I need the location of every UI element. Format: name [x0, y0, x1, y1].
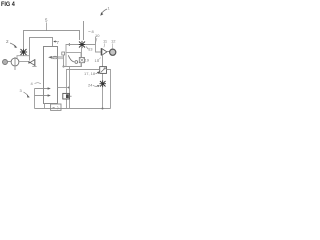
wire lower dip tube — [35, 95, 49, 97]
check valve 11 (bar + triangle) — [100, 48, 102, 55]
wire left riser with dip tubes — [34, 89, 36, 109]
wire top supply pipe — [24, 31, 80, 49]
wire tank drain — [44, 104, 46, 109]
wire pipe below box to HX bottom — [63, 63, 82, 67]
component 8 small box on riser — [62, 52, 65, 55]
node 5 leader tick — [46, 23, 48, 32]
wire stub to meter circle — [107, 51, 110, 53]
label 7 arrow at tank top pipe — [54, 41, 57, 43]
svg-text:10: 10 — [95, 33, 100, 38]
node junction dot bottom — [102, 108, 104, 110]
wire vent stub above valve 13 — [83, 21, 85, 40]
wire tank outlet stub — [58, 87, 70, 89]
wire cold inlet line to valve box 11 — [86, 45, 101, 53]
wire loop pipe from valve box left — [67, 70, 100, 109]
heat exchanger HX box — [66, 53, 81, 67]
wire HX coil curl — [68, 55, 74, 62]
valve V24 (snowflake) — [100, 80, 107, 87]
node junction dot tank stub — [68, 87, 70, 89]
wire second pipe to tank top — [30, 38, 53, 61]
wire right branch from valve box — [107, 70, 111, 109]
svg-text:24: 24 — [88, 83, 93, 88]
wire west pipe of valve 13 down to HX — [66, 45, 78, 53]
wire motor stub — [8, 61, 12, 63]
wire bottom return pipe — [35, 108, 111, 110]
wire line through pump — [14, 57, 16, 70]
wire right dip tube into tank — [51, 56, 64, 58]
valve V13 (mixing valve snowflake) — [78, 41, 85, 48]
component 19 small box — [79, 58, 84, 63]
pump P2 box on loop — [63, 93, 70, 99]
wire valve 13 drop pipe — [81, 48, 83, 57]
check valve / tundish — [28, 59, 36, 66]
svg-text:17, 18: 17, 18 — [84, 71, 96, 76]
valve V2 (mixing valve snowflake) — [20, 48, 27, 55]
wire pump outlet pipe — [19, 61, 30, 63]
valve box 17,18 — [100, 67, 107, 74]
node coil end circle — [75, 61, 78, 64]
svg-text:12: 12 — [111, 39, 116, 44]
wire leader 3 — [24, 92, 29, 96]
wire upper dip tube — [35, 88, 49, 90]
wire valve V2 lower bracket — [17, 56, 30, 61]
wire vertical main right column — [102, 54, 104, 108]
svg-text:~: ~ — [52, 106, 55, 111]
tank T (storage cylinder) — [44, 47, 58, 104]
meter 12 circle — [110, 49, 116, 55]
svg-text:15: 15 — [95, 58, 100, 63]
wire riser beside tank — [63, 55, 65, 67]
svg-text:2: 2 — [6, 39, 9, 44]
wire HX outlet drop pipe — [69, 67, 71, 109]
svg-text:FIG 4: FIG 4 — [1, 1, 15, 8]
node junction dot HX outlet — [63, 66, 65, 68]
node tick on west pipe — [68, 43, 70, 46]
motor M small grey circle — [3, 60, 8, 65]
pump P1 circle — [11, 58, 19, 66]
svg-text:19: 19 — [85, 58, 90, 63]
heater element box with ~ — [51, 104, 61, 110]
svg-text:): ) — [57, 106, 58, 110]
svg-text:13: 13 — [88, 47, 93, 52]
wire leader 2 — [10, 43, 16, 46]
label 13 leader — [86, 47, 89, 50]
